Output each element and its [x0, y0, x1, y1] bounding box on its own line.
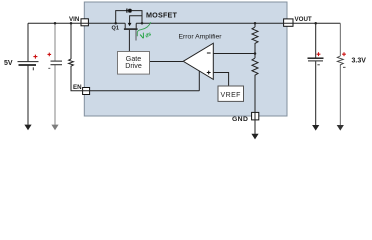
svg-text:MOSFET: MOSFET [146, 11, 178, 20]
svg-text:GND: GND [232, 116, 248, 123]
svg-text:EN: EN [73, 84, 82, 91]
svg-text:Q1: Q1 [112, 26, 119, 32]
svg-text:3.3V: 3.3V [352, 57, 367, 64]
svg-text:Drive: Drive [125, 62, 142, 70]
svg-text:VIN: VIN [69, 16, 80, 23]
svg-text:5V: 5V [4, 60, 13, 67]
svg-text:VREF: VREF [221, 92, 241, 99]
svg-text:Error Amplifier: Error Amplifier [179, 34, 223, 41]
svg-text:VOUT: VOUT [295, 16, 312, 23]
